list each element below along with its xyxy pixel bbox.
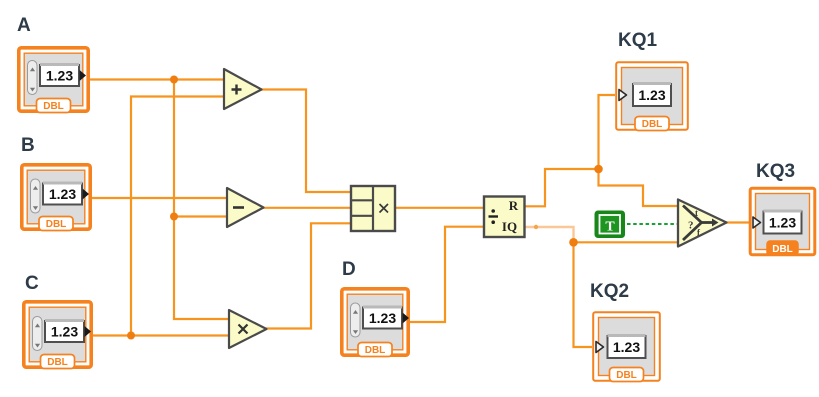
Compound Arithmetic function (multiply): [351, 186, 395, 231]
wire A branch riser down to Subtract and Multiply: [174, 80, 229, 320]
small dot on IQ output wire: [534, 225, 538, 229]
numeric control B (DBL terminal): [20, 163, 92, 231]
boolean True constant: [595, 211, 626, 239]
svg-text:KQ2: KQ2: [590, 281, 629, 302]
numeric control C (DBL terminal): [22, 300, 93, 369]
svg-text:T: T: [605, 220, 615, 235]
svg-text:KQ3: KQ3: [756, 161, 795, 182]
wire Multiply output to Compound Arithmetic input 3: [266, 223, 351, 328]
svg-text:DBL: DBL: [43, 101, 64, 112]
wire IQ junction to Select f input: [574, 241, 679, 243]
numeric indicator KQ2 (DBL terminal): [592, 311, 661, 382]
wire Quotient-Remainder R output up to junction: [524, 169, 599, 206]
svg-text:DBL: DBL: [772, 244, 793, 255]
svg-text:R: R: [509, 198, 519, 213]
svg-text:DBL: DBL: [365, 345, 386, 356]
svg-text:1.23: 1.23: [613, 339, 640, 355]
svg-text:DBL: DBL: [47, 357, 68, 368]
wire A branch to Subtract y input: [174, 215, 227, 217]
svg-text:?: ?: [688, 220, 694, 232]
svg-text:A: A: [17, 15, 31, 36]
svg-text:DBL: DBL: [642, 119, 663, 130]
junction dot on wire A: [170, 76, 178, 84]
svg-text:1.23: 1.23: [369, 310, 396, 326]
Multiply function: [229, 310, 267, 348]
svg-text:1.23: 1.23: [769, 215, 796, 231]
numeric indicator KQ1 (DBL terminal): [615, 61, 689, 131]
wire Quotient-Remainder IQ output (pale segment): [524, 227, 574, 242]
svg-text:1.23: 1.23: [638, 87, 665, 103]
svg-text:t: t: [695, 208, 698, 218]
Quotient and Remainder function: [484, 197, 525, 238]
wire C output to Multiply y input: [90, 334, 229, 336]
wire D output to Quotient-Remainder y input: [408, 227, 484, 322]
Select function: [678, 200, 727, 247]
wire junction down to Select t input: [599, 169, 679, 206]
svg-text:1.23: 1.23: [49, 186, 76, 202]
svg-text:1.23: 1.23: [46, 68, 73, 84]
wire B output to Subtract x input: [89, 197, 227, 199]
junction dot R output branch: [594, 165, 603, 174]
wire C branch riser up to Add y input: [131, 97, 224, 336]
numeric indicator KQ3 (DBL terminal): [749, 187, 816, 256]
svg-text:D: D: [342, 259, 356, 280]
svg-text:DBL: DBL: [616, 370, 637, 381]
wire A output to Add x input: [86, 78, 224, 80]
junction dot A riser to Subtract: [170, 213, 178, 221]
wire Select output to indicator KQ3: [725, 221, 752, 223]
svg-text:B: B: [21, 135, 35, 156]
junction dot on wire C: [127, 332, 135, 340]
junction dot IQ output branch: [569, 238, 578, 247]
Add function: [224, 69, 262, 109]
wire Add output to Compound Arithmetic input 1: [260, 90, 351, 193]
svg-text:1.23: 1.23: [51, 324, 78, 340]
wire IQ junction down to indicator KQ2: [574, 242, 596, 347]
numeric control D (DBL terminal): [340, 287, 410, 357]
wire junction up to indicator KQ1: [599, 95, 619, 169]
svg-text:DBL: DBL: [46, 219, 67, 230]
svg-text:C: C: [25, 273, 39, 294]
wire Subtract output to Compound Arithmetic input 2: [262, 207, 351, 209]
svg-text:KQ1: KQ1: [618, 30, 658, 51]
numeric control A (DBL terminal): [17, 46, 90, 113]
boolean dashed wire T constant to Select s input: [627, 223, 678, 225]
Subtract function: [227, 188, 264, 227]
wire Compound Arithmetic output to Quotient-Remainder x input: [395, 207, 484, 209]
svg-text:IQ: IQ: [502, 219, 517, 234]
